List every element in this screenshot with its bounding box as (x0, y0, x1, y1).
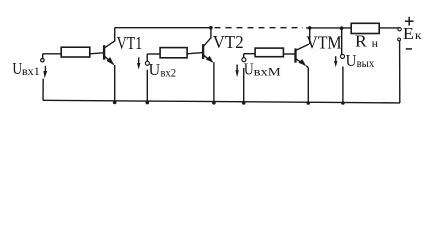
svg-text:U: U (12, 59, 22, 78)
svg-text:U: U (244, 60, 254, 79)
wire top collector rail VT1 to VT2 (115, 27, 211, 29)
resistor RM (255, 48, 283, 57)
node VTM emitter-rail junction (307, 101, 311, 105)
wire VTM emitter to rail (307, 68, 309, 103)
transistor VT1 emitter (105, 56, 114, 64)
terminal Ek plus (398, 28, 401, 31)
wire input M to ground rail (243, 68, 245, 103)
wire input 1 (43, 53, 62, 55)
arrow U_vx1 (44, 66, 46, 72)
svg-text:н: н (372, 38, 378, 50)
wire RM to VTM base (283, 53, 294, 55)
wire R2 to VT2 base (187, 53, 202, 54)
transistor VTM base bar (294, 48, 296, 62)
arrow U_vyx (335, 56, 337, 61)
terminal output circle (341, 54, 345, 58)
wire VT1 emitter to rail (114, 65, 116, 103)
wire Ek down right side (399, 41, 401, 103)
svg-text:к: к (415, 30, 422, 42)
terminal input 1 circle (41, 59, 44, 62)
label plus (drawn) (405, 17, 414, 26)
resistor R1 (61, 47, 90, 57)
node output tap junction (340, 26, 344, 30)
transistor VTM emitter (296, 59, 305, 65)
transistor VT2 base bar (202, 44, 204, 59)
svg-text:VTМ: VTМ (306, 32, 341, 52)
svg-text:вх1: вх1 (22, 66, 40, 78)
wire input 1 to ground rail (42, 79, 44, 101)
wire output tap lead (341, 28, 343, 54)
svg-text:VT2: VT2 (213, 32, 244, 52)
transistor VT2 collector (204, 38, 211, 46)
transistor VTM collector (296, 44, 309, 50)
svg-text:Е: Е (403, 24, 414, 43)
terminal input 2 circle (145, 61, 149, 65)
terminal Ek minus (398, 38, 401, 41)
node VT2 collector junction (209, 26, 213, 30)
wire VTM collector riser (309, 28, 311, 44)
wire dashed rail continuation (215, 27, 304, 29)
resistor Rn (351, 23, 379, 33)
svg-text:U: U (149, 60, 161, 79)
arrow U_vxM (236, 65, 238, 71)
svg-text:U: U (346, 51, 357, 70)
node VT1 emitter-rail junction (113, 101, 117, 105)
wire rail VTM to Rn (306, 27, 351, 29)
resistor R2 (160, 48, 187, 58)
svg-text:вых: вых (357, 58, 375, 70)
terminal input 1 lead (42, 54, 44, 58)
terminal input M circle (242, 58, 246, 62)
transistor VT2 emitter (204, 55, 213, 62)
terminal input M lead (243, 54, 245, 58)
wire bottom common rail (43, 100, 400, 103)
transistor VT1 base bar (103, 45, 105, 60)
svg-text:вхМ: вхМ (254, 67, 281, 79)
node input2-rail junction (146, 101, 150, 105)
node inputM-rail junction (242, 101, 246, 105)
node VT2 emitter-rail junction (212, 101, 216, 105)
node VTM collector junction (308, 26, 312, 30)
svg-text:VT1: VT1 (117, 33, 143, 53)
wire input 2 (147, 53, 160, 55)
transistor VT1 collector (105, 41, 115, 48)
wire VT2 emitter to rail (213, 62, 215, 103)
node output-rail junction (341, 101, 345, 105)
wire VT1 collector riser (114, 28, 116, 42)
wire input 2 to ground rail (146, 70, 148, 103)
svg-text:R: R (355, 31, 367, 50)
minus sign Ek (406, 48, 412, 50)
arrow U_vx2 (138, 57, 140, 63)
wire R1 to VT1 base (90, 53, 104, 54)
wire output to ground rail (342, 67, 344, 104)
terminal input 2 lead (146, 54, 148, 62)
wire input M (244, 53, 255, 55)
svg-text:вх2: вх2 (161, 68, 177, 80)
wire VT2 collector riser (210, 28, 212, 39)
wire Rn to Ek (379, 27, 399, 29)
